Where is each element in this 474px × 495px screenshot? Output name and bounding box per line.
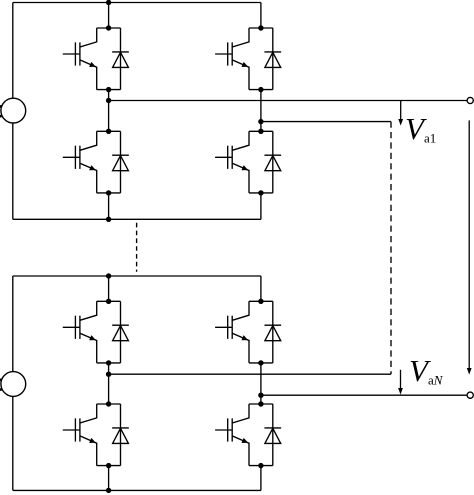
wire: module 1 output b toward next module (261, 121, 391, 123)
terminal: phase output bottom (467, 392, 473, 398)
junction: module N right leg cell2 bottom (258, 463, 263, 468)
IGBT switch with freewheel diode, module N upper-right (215, 301, 281, 363)
wire: module 1 left leg lower (108, 193, 110, 219)
wire: module N right leg upper (260, 276, 262, 301)
wire: module N left leg upper (108, 276, 110, 301)
junction: module N top bus / left leg (106, 273, 111, 278)
junction: module 1 bottom bus / left leg (106, 217, 111, 222)
junction: module N left leg midpoint node (106, 372, 111, 377)
wire: module 1 left leg upper (108, 3, 110, 29)
wire: module 1 right leg lower (260, 193, 262, 219)
wire: module N input a from series link (109, 373, 391, 375)
wire: module 1 top bus (13, 2, 261, 4)
DC source Vdc module N (1, 372, 26, 397)
junction: module N right leg cell1 top (258, 299, 263, 304)
wire: module 1 bottom bus (13, 218, 261, 220)
wire: module 1 left rail (above source) (12, 3, 14, 99)
DC source 1 clipped polarity marks (0, 106, 2, 116)
IGBT switch with freewheel diode, module 1 upper-left (63, 28, 129, 90)
DC source Vdc module 1 (1, 98, 26, 123)
wire: module 1 right leg middle (260, 90, 262, 132)
IGBT switch with freewheel diode, module 1 lower-left (63, 131, 129, 193)
wire: module N right leg lower (260, 466, 262, 491)
junction: module N left leg cell1 bottom (106, 360, 111, 365)
dashed wire: series link to module N (390, 122, 392, 375)
junction: module 1 left leg cell2 bottom (106, 190, 111, 195)
voltage arrow Va1 (398, 101, 403, 126)
voltage arrow VaN (398, 370, 403, 395)
junction: module 1 right leg cell1 top (258, 25, 263, 30)
junction: module N right leg cell1 bottom (258, 360, 263, 365)
junction: module N left leg cell2 top (106, 401, 111, 406)
label VaN (409, 355, 442, 387)
wire: module N bottom bus (13, 489, 261, 491)
terminal: phase output top (467, 97, 473, 103)
IGBT switch with freewheel diode, module N lower-left (63, 404, 129, 466)
wire: module 1 right leg upper (260, 3, 262, 29)
junction: module N left leg cell1 top (106, 299, 111, 304)
junction: module 1 right leg cell1 bottom (258, 87, 263, 92)
voltage arrow Va total (467, 120, 472, 374)
junction: module 1 left leg cell1 top (106, 25, 111, 30)
junction: module 1 left leg midpoint node (106, 98, 111, 103)
junction: module N right leg cell2 top (258, 401, 263, 406)
label Va1 (405, 113, 436, 145)
junction: module 1 left leg cell2 top (106, 129, 111, 134)
IGBT switch with freewheel diode, module 1 lower-right (215, 131, 281, 193)
junction: module N bottom bus / left leg (106, 488, 111, 493)
junction: module 1 right leg cell2 top (258, 129, 263, 134)
junction: module 1 top bus / left leg (106, 0, 111, 5)
wire: module N right leg middle (260, 363, 262, 404)
wire: module N top bus (13, 275, 261, 277)
junction: module 1 left leg cell1 bottom (106, 87, 111, 92)
wire: module 1 left rail (below source) (12, 123, 14, 219)
dashed wire: module continuation indicator (136, 223, 138, 272)
wire: module 1 output a (midpoint to top terminal) (109, 100, 468, 102)
DC source N clipped polarity marks (0, 380, 2, 390)
wire: module N left leg middle (108, 363, 110, 404)
IGBT switch with freewheel diode, module N lower-right (215, 404, 281, 466)
wire: module N left rail (above source) (12, 276, 14, 372)
wire: module N output b (midpoint to bottom terminal) (261, 394, 467, 396)
junction: module 1 right leg midpoint node (258, 119, 263, 124)
wire: module N left rail (below source) (12, 396, 14, 490)
junction: module N left leg cell2 bottom (106, 463, 111, 468)
junction: module N right leg midpoint node (258, 393, 263, 398)
IGBT switch with freewheel diode, module N upper-left (63, 301, 129, 363)
wire: module 1 left leg middle (108, 90, 110, 132)
wire: module N left leg lower (108, 466, 110, 491)
junction: module 1 right leg cell2 bottom (258, 190, 263, 195)
IGBT switch with freewheel diode, module 1 upper-right (215, 28, 281, 90)
